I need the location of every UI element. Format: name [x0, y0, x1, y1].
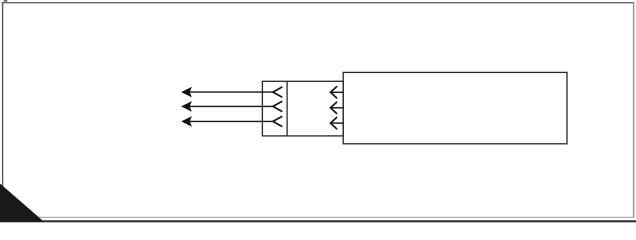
divider line inside small box	[286, 81, 288, 136]
arrow A3 (bottom output beam)	[181, 116, 282, 127]
arrow B2 (middle internal photon)	[331, 102, 344, 114]
arrow A1 (top output beam)	[181, 87, 282, 98]
arrow B1 (top internal photon)	[331, 86, 344, 98]
box: output coupler (small left box)	[262, 81, 343, 136]
box: gain medium (large right box)	[343, 72, 567, 143]
arrow A2 (middle output beam)	[181, 101, 282, 112]
outer frame	[2, 2, 634, 4]
corner triangle artifact	[0, 184, 44, 222]
arrow B3 (bottom internal photon)	[331, 117, 344, 129]
top-left notch artifact	[4, 0, 7, 2]
bottom black bar	[0, 220, 636, 222]
